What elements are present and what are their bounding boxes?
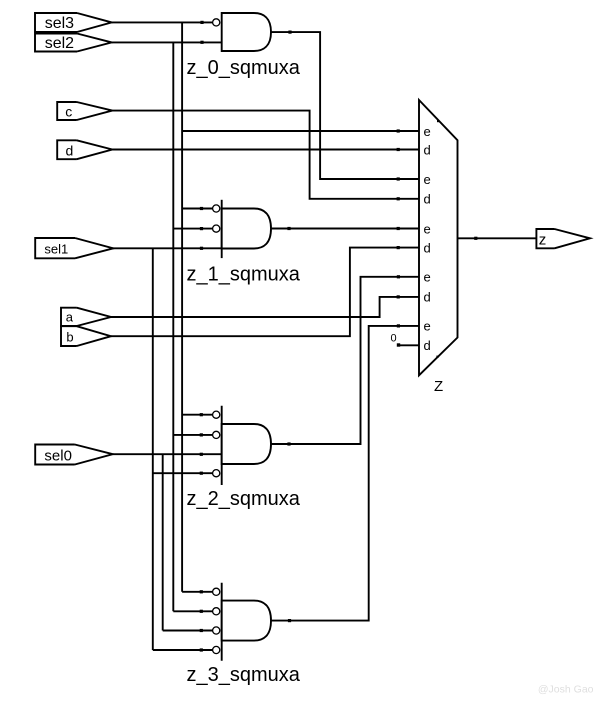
svg-text:z_0_sqmuxa: z_0_sqmuxa — [187, 57, 301, 79]
mux d1 pin junction dot — [397, 148, 400, 151]
mux e4 pin junction dot — [397, 275, 400, 278]
and-gate z_1_sqmuxa body — [222, 209, 271, 249]
mux output junction dot — [474, 237, 477, 240]
svg-text:sel0: sel0 — [44, 447, 72, 464]
mux anchor dot on bottom diagonal — [436, 356, 438, 358]
wire c port to mux input d2 — [112, 111, 419, 199]
z_3 input 1 junction dot — [200, 590, 203, 593]
svg-text:d: d — [424, 142, 431, 157]
wire sel1 vertical bus (down to z_3 input 4) — [152, 248, 154, 650]
and-gate z_0_sqmuxa body — [222, 13, 271, 51]
mux e2 pin junction dot — [397, 177, 400, 180]
wire z_0 output to mux input e2 — [271, 32, 419, 179]
wire constant 0 to mux input d5 — [399, 344, 420, 346]
wire sel0 port to z_2 input 3 — [113, 453, 222, 455]
z_2 output junction dot — [287, 442, 290, 445]
svg-text:d: d — [424, 240, 431, 255]
wire sel3 bus tap to z_2 input 1 — [182, 414, 213, 416]
svg-text:sel3: sel3 — [45, 15, 74, 32]
wire b port to mux input d3 — [111, 248, 419, 337]
svg-text:d: d — [424, 290, 431, 305]
z_3 input 2 junction dot — [200, 610, 203, 613]
z_2 input 3 junction dot — [200, 453, 203, 456]
and-gate z_1_sqmuxa input-side bar — [221, 200, 223, 258]
wire sel2 bus tap to z_1 input 2 — [173, 228, 212, 230]
z_3 input 4 inversion bubble — [213, 646, 220, 653]
wire z_1 output to mux input e3 — [271, 228, 419, 230]
svg-text:e: e — [424, 124, 431, 139]
svg-text:Z: Z — [434, 378, 443, 395]
svg-text:z: z — [539, 232, 547, 249]
wire z_3 output to mux input e5 — [271, 326, 419, 621]
z_1 input 2 inversion bubble — [213, 225, 220, 232]
mux z body — [419, 100, 458, 375]
output port z — [536, 229, 590, 249]
svg-text:@Josh Gao: @Josh Gao — [538, 684, 594, 696]
svg-text:a: a — [66, 309, 74, 324]
svg-text:z_3_sqmuxa: z_3_sqmuxa — [187, 664, 301, 686]
svg-text:e: e — [424, 221, 431, 236]
input port c — [57, 102, 112, 120]
svg-text:0: 0 — [391, 333, 397, 345]
z_2 input 2 junction dot — [200, 433, 203, 436]
svg-text:z_2_sqmuxa: z_2_sqmuxa — [187, 488, 301, 510]
z_2 input 4 inversion bubble — [213, 470, 220, 477]
wire sel1 bus elbow to z_3 input 4 — [153, 649, 213, 651]
svg-text:sel2: sel2 — [45, 35, 74, 52]
z_1 input 3 junction dot — [200, 247, 203, 250]
input port sel3 — [35, 13, 112, 32]
mux e1 pin junction dot — [397, 129, 400, 132]
wire sel0 vertical bus (down to z_3 input 3) — [162, 454, 164, 630]
z_0 input 2 junction dot — [200, 41, 203, 44]
z_2 input 1 junction dot — [200, 413, 203, 416]
svg-text:d: d — [66, 143, 74, 159]
wire sel3 bus tap to z_1 input 1 — [182, 208, 213, 210]
mux d4 pin junction dot — [397, 295, 400, 298]
wire sel3 port to gate z_0 input 1 — [112, 21, 213, 23]
svg-text:e: e — [424, 319, 431, 334]
mux d3 pin junction dot — [397, 246, 400, 249]
input port sel1 — [35, 238, 113, 258]
svg-text:b: b — [66, 330, 73, 345]
z_3 input 2 inversion bubble — [213, 608, 220, 615]
z_0 input 1 junction dot — [200, 21, 203, 24]
mux d2 pin junction dot — [397, 197, 400, 200]
z_1 input 1 junction dot — [200, 207, 203, 210]
z_2 input 4 junction dot — [200, 472, 203, 475]
wire sel1 port to z_1 input 3 — [112, 247, 222, 249]
mux anchor dot on top diagonal — [437, 120, 439, 122]
z_3 input 1 inversion bubble — [213, 588, 220, 595]
and-gate z_2_sqmuxa input-side bar — [221, 406, 223, 485]
z_1 input 2 junction dot — [200, 227, 203, 230]
wire z_2 output to mux input e4 — [271, 277, 419, 444]
z_2 input 1 inversion bubble — [213, 411, 220, 418]
mux e3 pin junction dot — [397, 227, 400, 230]
wire d port to mux input d1 — [112, 149, 419, 151]
z_3 input 3 junction dot — [200, 629, 203, 632]
constant 0 pad — [397, 343, 400, 346]
svg-text:d: d — [424, 338, 431, 353]
wire sel3 bus tap to mux input e1 — [182, 130, 419, 132]
svg-text:sel1: sel1 — [44, 241, 68, 256]
wire sel2 port to gate z_0 input 2 — [112, 41, 222, 43]
wire sel2 vertical bus (down to z_3 input 2) — [172, 42, 174, 611]
svg-text:e: e — [424, 270, 431, 285]
z_2 input 2 inversion bubble — [213, 431, 220, 438]
z_1 output junction dot — [287, 227, 290, 230]
input port d — [57, 140, 112, 159]
input port sel0 — [35, 445, 113, 465]
z_0 input 1 inversion bubble — [213, 19, 220, 26]
wire sel3 vertical bus (down to z_3 input 1) — [181, 22, 183, 591]
wire sel1 bus tap to z_2 input 4 — [153, 472, 213, 474]
wire sel2 bus elbow to z_3 input 2 — [173, 610, 212, 612]
wire sel2 bus tap to z_2 input 2 — [173, 434, 212, 436]
svg-text:e: e — [424, 172, 431, 187]
svg-text:z_1_sqmuxa: z_1_sqmuxa — [187, 263, 301, 285]
input port sel2 — [35, 34, 112, 53]
wire mux output to port z — [458, 237, 537, 239]
svg-text:c: c — [65, 104, 72, 120]
wire a port to mux input d4 — [111, 297, 419, 317]
input port a — [61, 308, 111, 326]
z_3 input 4 junction dot — [200, 648, 203, 651]
and-gate z_2_sqmuxa body — [222, 424, 271, 464]
mux e5 pin junction dot — [397, 324, 400, 327]
z_1 input 1 inversion bubble — [213, 205, 220, 212]
and-gate z_3_sqmuxa body — [222, 601, 271, 641]
and-gate z_3_sqmuxa input-side bar — [221, 583, 223, 661]
wire sel0 bus elbow to z_3 input 3 — [163, 630, 213, 632]
wire sel3 bus elbow to z_3 input 1 — [182, 591, 213, 593]
z_0 output junction dot — [288, 31, 291, 34]
z_3 output junction dot — [288, 619, 291, 622]
z_3 input 3 inversion bubble — [213, 627, 220, 634]
input port b — [61, 326, 111, 346]
svg-text:d: d — [424, 192, 431, 207]
